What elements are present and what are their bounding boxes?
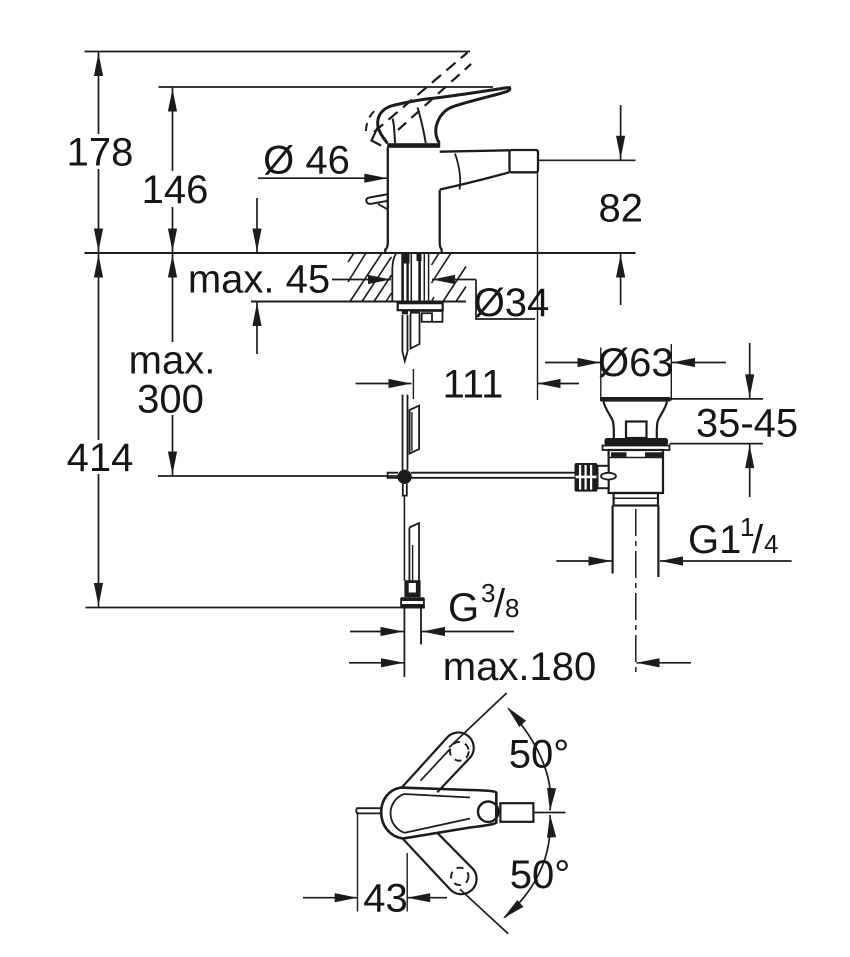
G1 1/4 composite label — [688, 512, 778, 562]
cartridge seam black band — [387, 143, 440, 148]
arrowheads — [94, 53, 754, 902]
svg-text:178: 178 — [67, 131, 134, 175]
svg-text:8: 8 — [505, 593, 519, 623]
handle nose — [372, 127, 382, 146]
hose middle segment — [410, 406, 420, 454]
max.180 dim — [349, 662, 404, 664]
111 dim lines — [356, 383, 412, 385]
thin hose line down to connector — [403, 496, 405, 581]
svg-text:/: / — [752, 518, 764, 562]
knurled nut — [575, 463, 598, 492]
deck hatching — [348, 253, 466, 302]
dim 414 vertical line — [98, 253, 100, 440]
aerator outlet block — [510, 150, 539, 172]
lower hose braid — [409, 523, 419, 581]
pull rod knob — [366, 194, 388, 204]
extension line y=476 (rod level) — [158, 475, 398, 477]
svg-text:35-45: 35-45 — [696, 402, 798, 446]
Ø46 leader — [258, 177, 387, 179]
dashed raised lever — [374, 53, 468, 133]
G 3/8 dim — [350, 631, 404, 633]
svg-text:111: 111 — [443, 363, 504, 407]
body outline — [381, 788, 496, 839]
centerline — [533, 812, 565, 814]
spout — [440, 150, 510, 189]
faucet body column — [385, 148, 441, 253]
bracket — [421, 311, 443, 322]
outlet level line 82 — [538, 159, 636, 161]
tailpipe — [611, 506, 613, 574]
dim 178 vertical line — [98, 52, 100, 135]
dim 146 vertical line — [172, 87, 174, 171]
svg-text:max.180: max.180 — [443, 645, 596, 689]
faucet shank inside deck hole — [388, 253, 575, 677]
aerator circle — [478, 802, 498, 822]
svg-text:300: 300 — [137, 378, 204, 422]
50 deg line lower — [460, 889, 508, 934]
svg-text:146: 146 — [142, 168, 209, 212]
lower ring — [614, 493, 658, 506]
angle arcs — [509, 709, 551, 811]
G3/8 connector — [404, 580, 420, 597]
rod middle segment — [402, 395, 404, 471]
body inner lines — [391, 794, 405, 833]
svg-text:50°: 50° — [509, 733, 570, 777]
ball joint — [397, 470, 411, 484]
lower lobe — [403, 833, 477, 894]
deck bottom line — [251, 301, 466, 303]
nozzle — [500, 803, 533, 822]
svg-text:4: 4 — [764, 529, 778, 559]
svg-text:82: 82 — [599, 187, 644, 231]
handle and lever — [378, 88, 510, 144]
dim 82 vertical arrows — [620, 105, 622, 160]
111 extension ticks — [412, 369, 414, 399]
centerline dash-dot — [635, 509, 637, 676]
extension line y=607.5 (hose end level) — [86, 607, 426, 609]
G 3/8 composite label — [448, 578, 519, 630]
svg-text:50°: 50° — [510, 853, 571, 897]
G1 1/4 dim — [556, 560, 611, 562]
hose tails below connector — [403, 609, 405, 678]
svg-text:max. 45: max. 45 — [188, 258, 330, 302]
svg-text:Ø34: Ø34 — [474, 281, 550, 325]
35-45 dim — [671, 398, 764, 400]
mounting washer below deck — [398, 303, 443, 310]
stub below ball — [403, 484, 407, 496]
hose stub upper — [411, 314, 420, 349]
upper lobe — [402, 732, 474, 792]
svg-text:Ø63: Ø63 — [598, 341, 674, 385]
43 dim — [303, 897, 358, 899]
deck top line — [85, 252, 636, 254]
dimension line 146 reference — [159, 86, 494, 88]
dim max45 vertical arrows — [256, 198, 258, 253]
pull rod upper segment with pointed tip — [402, 315, 407, 361]
horizontal pop-up rod — [411, 472, 575, 474]
svg-text:43: 43 — [363, 877, 408, 921]
50 deg line upper — [449, 693, 507, 748]
svg-text:414: 414 — [67, 436, 134, 480]
svg-text:G1: G1 — [688, 518, 741, 562]
side inlet boss — [598, 466, 609, 488]
handle inner lines — [418, 108, 426, 144]
dim max300 vertical line — [172, 253, 174, 342]
rod stub — [356, 808, 381, 813]
dimension line top 178 reference — [85, 51, 471, 53]
svg-text:max.: max. — [129, 339, 216, 383]
svg-text:Ø 46: Ø 46 — [263, 139, 350, 183]
svg-text:G: G — [448, 586, 479, 630]
Ø34 dim lines — [332, 279, 391, 281]
Ø63 dim lines — [545, 362, 601, 364]
